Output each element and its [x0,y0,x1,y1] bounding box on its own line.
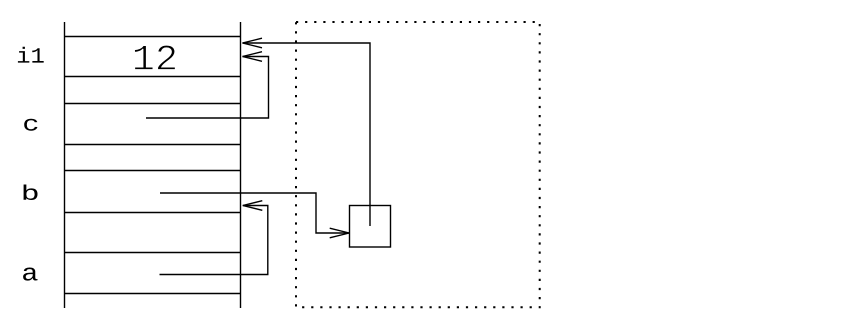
label b [24,184,38,200]
arrowhead at heap object square [330,228,350,238]
wire: pointer from cell c to cell i1 [146,52,269,118]
cell boundary line 1 (top of cell i1) [65,36,241,38]
arrowhead at memory column (cell b bottom area) [243,201,262,211]
arrowhead at cell i1 (lower) [243,52,263,62]
memory column right wall [240,22,242,308]
cell boundary line 8 (bottom of cell a) [65,293,241,295]
label c [24,119,37,131]
wire: pointer from cell b to heap object square [160,193,349,238]
label i1 [18,47,44,63]
arrowhead at cell i1 (upper) [243,38,263,48]
wire: pointer from cell a back to memory column [160,201,268,275]
heap object square [350,206,391,248]
heap region dotted box [296,22,540,307]
wire: pointer from heap object up and left to cell i1 [243,38,371,226]
cell boundary line 5 (top of cell b) [65,170,241,172]
memory column left wall [64,22,66,308]
cell boundary line 4 (bottom of cell c) [65,144,241,146]
cell boundary line 3 (top of cell c) [65,103,241,105]
cell boundary line 6 (bottom of cell b) [65,212,241,214]
value 12 in cell i1 [134,45,175,69]
label a [23,267,37,280]
cell boundary line 2 (bottom of cell i1) [65,76,241,78]
cell boundary line 7 (top of cell a) [65,252,241,254]
